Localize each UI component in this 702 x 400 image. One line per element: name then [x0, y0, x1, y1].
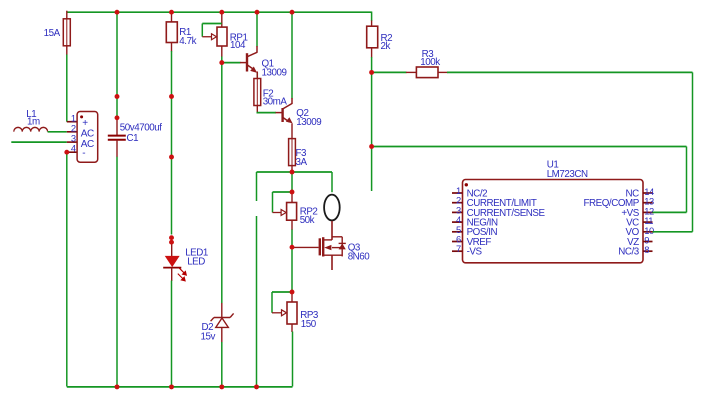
pin number 10 — [644, 225, 654, 236]
svg-text:-: - — [82, 148, 85, 159]
node RP3 top junction — [290, 290, 295, 295]
svg-text:1m: 1m — [27, 116, 40, 127]
svg-text:C1: C1 — [127, 133, 139, 144]
wire LED to bottom rail — [171, 281, 173, 387]
node Q3 gate junction — [290, 245, 295, 250]
U1 pin label NC/2 — [467, 188, 488, 199]
inductor L1 — [14, 127, 48, 131]
svg-text:30mA: 30mA — [263, 97, 288, 108]
fuse F3 3A — [289, 139, 296, 166]
U1 pin label VREF — [467, 237, 492, 248]
pin number 4 bridge — [71, 143, 76, 154]
svg-text:8: 8 — [644, 244, 649, 255]
pin number 2 bridge — [71, 123, 76, 134]
bridge label AC lower — [81, 139, 94, 150]
svg-text:-VS: -VS — [467, 247, 483, 258]
wire RP1 top lead — [221, 11, 223, 28]
label R2 — [381, 33, 393, 44]
wire R2 top lead — [371, 21, 373, 27]
wire RP3 wiper loop vertical — [271, 292, 273, 313]
wire RP3 bottom lead — [291, 324, 293, 332]
transistor Q1 base bar — [246, 53, 248, 71]
U1 pin 10 stub — [643, 231, 653, 233]
transistor Q3 source stub — [323, 254, 342, 256]
U1 pin label FREQ/COMP — [584, 198, 640, 209]
diode D2 zener bar — [211, 313, 234, 321]
U1 pin label VO — [626, 227, 640, 238]
label RP1 value 104 — [230, 40, 246, 51]
U1 pin label -VS — [467, 247, 483, 258]
label F2 value 30mA — [263, 97, 288, 108]
wire fuse F1 bottom lead — [66, 46, 68, 55]
wire D2 lower lead — [221, 327, 223, 342]
label Q2 value 13009 — [296, 117, 321, 128]
transistor Q1 emitter diagonal — [247, 65, 257, 73]
svg-text:4.7k: 4.7k — [179, 36, 196, 47]
pin number 1 bridge — [71, 113, 76, 124]
label Q1 value 13009 — [262, 68, 287, 79]
potentiometer RP2 50k — [273, 203, 297, 221]
wire F2 bottom lead — [256, 106, 258, 113]
resistor R3 100k — [416, 67, 438, 78]
node bottom rail junction RP2 loop — [254, 384, 259, 389]
label RP3 value 150 — [301, 319, 317, 330]
label D2 — [202, 322, 214, 333]
capacitor C1 top plate — [108, 135, 126, 137]
bridge label AC upper — [81, 129, 94, 140]
svg-text:NC/3: NC/3 — [618, 247, 640, 258]
node bottom rail junction LED — [169, 384, 174, 389]
svg-text:+: + — [82, 118, 88, 129]
wire RP2 loop left vertical lower — [256, 216, 258, 387]
U1 pin 6 stub — [452, 241, 463, 243]
wire RP2 bottom lead — [291, 220, 293, 230]
node R2 output junction — [369, 70, 374, 75]
resistor R2 — [367, 26, 378, 48]
wire LED anode lead — [171, 242, 173, 256]
U1 pin 13 stub — [643, 202, 653, 204]
node +VS branch junction — [369, 144, 374, 149]
wire Q2 base lead — [276, 112, 282, 114]
U1 pin label POS/IN — [467, 227, 498, 238]
node R1 wire joint — [169, 94, 174, 99]
wire R3 right lead — [438, 71, 448, 73]
svg-text:150: 150 — [301, 319, 317, 330]
wire VO riser — [692, 72, 694, 231]
wire node A horizontal — [257, 171, 333, 173]
wire L1 to bridge pin2 — [48, 131, 67, 133]
wire Q3 gate line — [292, 246, 319, 248]
wire RP3 wiper loop horizontal — [272, 291, 292, 293]
wire C1 to bottom rail — [116, 157, 118, 387]
node LED anode joint lower — [169, 240, 174, 245]
wire Q3 source lead — [331, 255, 333, 270]
svg-text:50v4700uf: 50v4700uf — [120, 123, 162, 134]
svg-text:2k: 2k — [381, 41, 391, 52]
wire ellipse drop — [331, 172, 333, 192]
wire F3 top lead — [291, 123, 293, 139]
U1 pin 11 stub — [643, 221, 653, 223]
wire RP3 top lead — [291, 292, 293, 302]
transistor Q3 channel bar — [322, 237, 324, 256]
wire F3 bottom lead — [291, 166, 293, 172]
fuse F2 30mA — [254, 79, 261, 106]
label R2 value 2k — [381, 41, 391, 52]
wire RP1 bottom lead — [221, 46, 223, 57]
wire C1 lower lead — [116, 140, 118, 157]
node Q1 base junction — [219, 60, 224, 65]
bridge rectifier pin3 stub — [67, 141, 77, 143]
wire +VS horizontal — [372, 146, 687, 148]
wire R1 top lead — [171, 11, 173, 23]
wire F1 to bridge pin1 — [66, 55, 68, 122]
label RP3 — [300, 310, 319, 321]
pin number 1 — [456, 185, 461, 196]
svg-text:13009: 13009 — [296, 117, 321, 128]
U1 pin label NC — [626, 188, 640, 199]
label D2 value 15v — [201, 331, 216, 342]
wire R2 junction to R3 — [372, 71, 407, 73]
U1 pin 3 stub — [452, 211, 463, 213]
svg-text:8N60: 8N60 — [348, 251, 371, 262]
node LED anode joint upper — [169, 235, 174, 240]
svg-text:50k: 50k — [300, 215, 315, 226]
wire F2 to Q2 base — [257, 112, 277, 114]
pin number 9 — [644, 235, 649, 246]
node top rail junction Q2 collector — [290, 10, 295, 15]
pin number 3 bridge — [71, 133, 76, 144]
diode D2 zener triangle — [216, 318, 229, 327]
node bridge pin4 junction — [64, 150, 69, 155]
label LED1 value LED — [187, 257, 205, 268]
U1 pin 12 stub — [643, 211, 653, 213]
svg-text:13009: 13009 — [262, 68, 287, 79]
transistor Q2 collector diagonal — [283, 104, 292, 110]
label R3 value 100k — [420, 57, 440, 68]
label Q2 — [296, 108, 308, 119]
node bottom rail junction C1 — [115, 384, 120, 389]
label Q3 value 8N60 — [348, 251, 371, 262]
LED cathode bar — [163, 267, 181, 269]
wire Q1 base lead — [240, 62, 246, 64]
wire D2 column upper — [221, 63, 223, 304]
U1 pin label CURRENT/SENSE — [467, 208, 546, 219]
U1 pin 5 stub — [452, 231, 463, 233]
label F3 — [296, 148, 308, 159]
bridge rectifier pin4 stub — [67, 151, 77, 153]
pin number 11 — [644, 215, 653, 226]
pin number 8 — [644, 244, 649, 255]
label U1 — [547, 160, 559, 171]
transistor Q3 body diode — [332, 237, 346, 257]
pin number 13 — [644, 196, 654, 207]
wire bottom rail — [67, 386, 293, 388]
svg-text:LED: LED — [187, 257, 205, 268]
label F3 value 3A — [296, 157, 308, 168]
wire Q3 drain lead — [331, 221, 333, 240]
wire +VS pin to riser — [653, 211, 687, 213]
svg-text:LM723CN: LM723CN — [547, 169, 588, 180]
wire Q1 base — [222, 62, 241, 64]
bridge rectifier body — [77, 112, 98, 163]
U1 pin 7 stub — [452, 250, 463, 252]
wire LED cathode lead — [171, 268, 173, 281]
wire VO pin to riser — [653, 231, 693, 233]
label R1 — [179, 27, 191, 38]
label C1 — [127, 133, 139, 144]
pin number 14 — [644, 186, 654, 197]
transistor Q3 body stub arrow — [324, 245, 342, 250]
resistor R1 — [166, 22, 177, 43]
wire RP3 to bottom rail — [292, 332, 294, 387]
wire RP2 loop left vertical upper — [256, 172, 258, 201]
wire D2 upper lead — [221, 303, 223, 318]
wire C1 upper lead — [116, 118, 118, 135]
node LED wire joint — [169, 155, 174, 160]
pin number 7 — [456, 243, 461, 254]
bridge pin1 orientation dot — [80, 115, 83, 118]
U1 pin 4 stub — [452, 221, 463, 223]
transistor Q3 gate bar — [319, 238, 321, 255]
svg-text:3A: 3A — [296, 157, 308, 168]
capacitor C1 bottom plate — [108, 139, 126, 141]
node top rail junction R1 — [169, 10, 174, 15]
pin number 4 — [456, 214, 461, 225]
wire C1 top — [116, 12, 118, 119]
label L1 value 1m — [27, 116, 40, 127]
wire RP1 to Q1 base node — [221, 57, 223, 63]
wire AC input to bridge pin3 — [11, 141, 67, 143]
wire Q2 collector lead — [291, 98, 293, 104]
wire +VS riser — [686, 147, 688, 213]
wire RP2 wiper loop horizontal — [273, 191, 293, 193]
label F1 value 15A — [44, 28, 61, 39]
U1 pin 14 stub — [643, 192, 653, 194]
node top rail junction C1 — [115, 10, 120, 15]
label U1 value LM723CN — [547, 169, 588, 180]
transistor Q2 emitter diagonal — [283, 117, 293, 123]
bridge rectifier pin2 stub — [67, 131, 77, 133]
wire RP2 to gate node — [291, 230, 293, 248]
potentiometer RP3 150 — [272, 302, 297, 324]
svg-text:104: 104 — [230, 40, 246, 51]
node F3 output junction — [290, 170, 295, 175]
U1 pin1 orientation dot — [465, 183, 468, 186]
wire bridge pin4 down left rail — [66, 152, 68, 386]
label R1 value 4.7k — [179, 36, 196, 47]
label L1 — [26, 109, 36, 120]
svg-text:15A: 15A — [44, 28, 61, 39]
transistor Q1 collector diagonal — [247, 52, 257, 57]
label RP2 value 50k — [300, 215, 315, 226]
wire top supply rail — [67, 11, 372, 13]
label Q3 — [348, 242, 361, 253]
node C1 wire joint — [115, 94, 120, 99]
label LED1 — [185, 248, 208, 259]
wire R2 junction down — [371, 72, 373, 191]
U1 pin 9 stub — [643, 241, 653, 243]
U1 pin 8 stub — [643, 250, 653, 252]
U1 pin label +VS — [621, 208, 639, 219]
node top rail junction RP1 — [219, 10, 224, 15]
U1 pin label NC/3 — [618, 247, 640, 258]
label F2 — [263, 89, 274, 100]
wire R3 left lead — [406, 71, 416, 73]
wire R3 to VO riser — [447, 71, 693, 73]
wire gate node to RP3 — [291, 247, 293, 292]
wire RP2 top lead — [291, 192, 293, 203]
wire Q1 collector up — [256, 12, 258, 46]
node RP2 wiper junction — [290, 190, 295, 195]
pin number 2 — [456, 195, 461, 206]
wire RP2 wiper loop vertical — [272, 192, 274, 213]
fuse F1 15A — [63, 19, 70, 46]
wire R2 to junction — [371, 57, 373, 72]
bridge label + — [82, 118, 88, 129]
svg-text:15v: 15v — [201, 331, 216, 342]
pin number 12 — [644, 205, 654, 216]
wire F2 top lead — [256, 72, 258, 79]
svg-text:4: 4 — [71, 143, 76, 154]
transistor Q2 base bar — [281, 108, 283, 122]
op-amp regulator U1 body — [463, 180, 644, 263]
svg-text:7: 7 — [456, 243, 461, 254]
U1 pin 1 stub — [452, 192, 463, 194]
wire fuse F1 top lead — [66, 11, 68, 20]
node bottom rail junction D2 — [219, 384, 224, 389]
label RP2 — [300, 207, 318, 218]
LED arrows — [178, 268, 187, 281]
pin number 3 — [456, 204, 461, 215]
pin number 6 — [456, 234, 461, 245]
U1 pin label NEG/IN — [467, 218, 498, 229]
potentiometer RP1 104 — [202, 27, 227, 46]
wire R1 to LED — [171, 51, 173, 235]
bridge label - — [82, 148, 85, 159]
U1 pin 2 stub — [452, 202, 463, 204]
LED LED1 — [166, 256, 179, 266]
wire rail to R2 — [371, 12, 373, 22]
transistor Q3 drain stub — [323, 239, 332, 241]
svg-text:100k: 100k — [420, 57, 440, 68]
wire D2 to bottom rail — [221, 342, 223, 387]
U1 pin label CURRENT/LIMIT — [467, 198, 537, 209]
wire RP1 wiper loop horizontal — [202, 23, 222, 25]
pin number 5 — [456, 224, 461, 235]
wire Q1 collector lead — [256, 46, 258, 53]
node top rail junction Q1 collector — [255, 10, 260, 15]
label R3 — [422, 49, 435, 60]
label Q1 — [262, 59, 274, 70]
bridge rectifier pin1 stub — [67, 121, 77, 123]
wire RP1 wiper loop vertical — [201, 24, 203, 37]
U1 pin label VZ — [627, 237, 639, 248]
node C1 top terminal — [115, 115, 120, 120]
wire F3 junction to RP2 — [291, 172, 293, 192]
wire R1 bottom lead — [171, 43, 173, 52]
label RP1 — [230, 33, 248, 44]
lamp ellipse — [324, 195, 340, 221]
label C1 value 50v4700uf — [120, 123, 162, 134]
U1 pin label VC — [626, 218, 639, 229]
wire Q2 collector up — [291, 12, 293, 98]
wire Q1 emitter to F2 — [256, 73, 258, 80]
wire R2 bottom lead — [371, 48, 373, 58]
